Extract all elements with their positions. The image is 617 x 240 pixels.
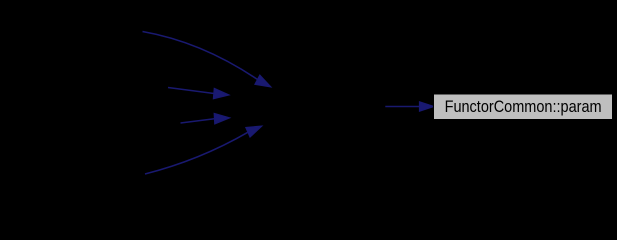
svg-text:FunctorCommon::param: FunctorCommon::param bbox=[445, 97, 602, 116]
